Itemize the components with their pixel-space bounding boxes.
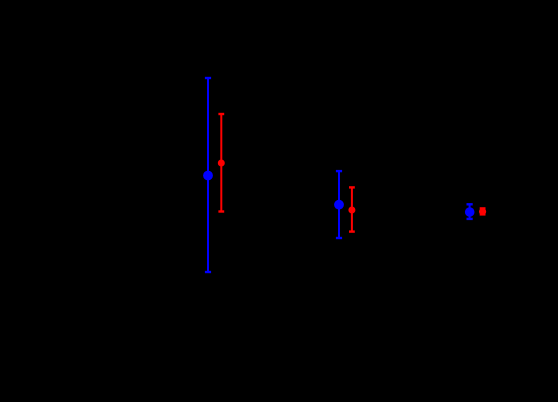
marker — [479, 208, 486, 215]
wire — [338, 171, 340, 238]
top cap — [480, 207, 486, 209]
bottom cap — [480, 213, 486, 215]
top cap — [349, 186, 355, 188]
top cap — [218, 113, 224, 115]
marker — [218, 160, 225, 167]
blue errorbar series 3 — [465, 204, 475, 219]
marker — [348, 207, 355, 214]
top cap — [205, 77, 211, 79]
top cap — [467, 203, 473, 205]
red errorbar series 1 — [218, 114, 225, 212]
bottom cap — [336, 237, 342, 239]
wire — [469, 204, 471, 219]
blue errorbar series 2 — [334, 171, 344, 238]
blue errorbar series 1 — [203, 78, 213, 272]
wire — [351, 187, 353, 231]
top cap — [336, 170, 342, 172]
bottom cap — [218, 210, 224, 212]
red errorbar series 2 — [348, 187, 355, 231]
wire — [482, 208, 484, 214]
red errorbar series 3 — [479, 208, 486, 215]
wire — [220, 114, 222, 212]
bottom cap — [205, 271, 211, 273]
wire — [207, 78, 209, 272]
marker — [334, 200, 344, 210]
bottom cap — [349, 230, 355, 232]
bottom cap — [467, 218, 473, 220]
marker — [203, 171, 213, 181]
marker — [465, 207, 475, 217]
